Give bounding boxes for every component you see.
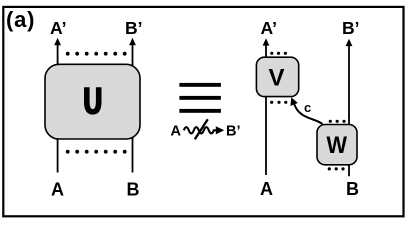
wire B (left panel, vertical) [132, 44, 134, 173]
svg-text:A’: A’ [50, 18, 67, 38]
arrowhead B' (left panel) [129, 38, 136, 45]
dotted row below V [270, 101, 287, 104]
svg-text:c: c [304, 100, 311, 115]
wire c (curved, W to V) [294, 103, 323, 125]
arrowhead of wire c [290, 97, 297, 106]
wire A (right panel, vertical) [265, 44, 267, 175]
squiggly arrow [184, 127, 217, 133]
equivalence symbol [179, 83, 221, 113]
svg-text:A: A [171, 124, 182, 140]
svg-text:A: A [260, 179, 273, 199]
svg-text:V: V [269, 64, 285, 91]
squiggly arrowhead [216, 126, 224, 134]
dotted row above W [329, 120, 346, 123]
box V [256, 57, 298, 96]
dotted row below W [328, 167, 345, 170]
svg-text:A’: A’ [261, 18, 278, 38]
arrowhead B' (right panel) [346, 39, 353, 46]
wire A (left panel, vertical) [57, 44, 59, 173]
svg-text:B: B [346, 179, 359, 199]
svg-text:(a): (a) [6, 7, 35, 32]
dotted row above V [270, 52, 287, 55]
arrowhead A' (right panel) [263, 38, 270, 45]
svg-text:B’: B’ [125, 18, 143, 38]
arrowhead A' (left panel) [54, 38, 61, 45]
svg-text:A: A [51, 180, 64, 200]
negation slash [195, 119, 208, 139]
dotted row above U [66, 52, 127, 56]
svg-text:W: W [327, 132, 348, 159]
box U [45, 64, 140, 139]
svg-text:B: B [127, 180, 140, 200]
wire B (right panel, vertical) [348, 45, 350, 177]
box W [317, 125, 357, 165]
dotted row below U [66, 150, 127, 154]
svg-text:B’: B’ [226, 124, 241, 140]
svg-text:B’: B’ [342, 18, 360, 38]
